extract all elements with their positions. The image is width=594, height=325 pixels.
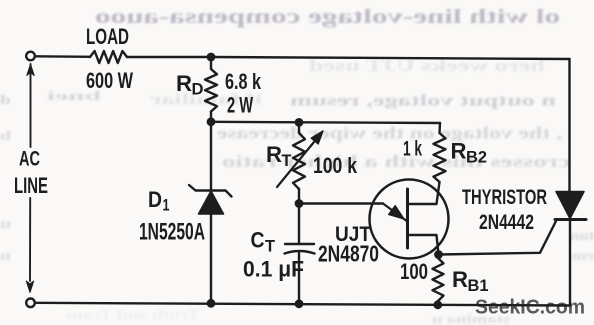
junction node second rail / RD xyxy=(207,117,216,126)
resistor RB2 1k zigzag xyxy=(434,133,446,182)
svg-text:THYRISTOR: THYRISTOR xyxy=(462,186,547,209)
wire D1 bottom stub xyxy=(210,214,212,303)
junction node bottom rail / D1 xyxy=(207,299,216,308)
svg-text:D: D xyxy=(192,80,204,99)
resistor RB1 100 zigzag xyxy=(433,258,444,301)
svg-text:1: 1 xyxy=(163,196,170,215)
svg-text:1 k: 1 k xyxy=(403,138,422,161)
junction node emitter / RT / CT xyxy=(295,199,304,208)
arrow up toward top terminal xyxy=(27,64,34,76)
thyristor cathode bar xyxy=(555,218,586,221)
thyristor Q1 triangle 2N4442 xyxy=(556,192,584,219)
wire thyristor cathode down to bottom rail xyxy=(569,220,571,306)
svg-text:2N4442: 2N4442 xyxy=(479,211,534,234)
wire CT bottom stub xyxy=(298,253,300,304)
wire RB2 corner stub xyxy=(438,123,441,133)
svg-text:Truth and Trans: Truth and Trans xyxy=(64,308,200,323)
wire RB1 top stub xyxy=(437,255,440,259)
zener D1 cathode bar with wings xyxy=(189,185,232,197)
svg-text:tun: tun xyxy=(570,229,594,244)
wire second rail xyxy=(211,122,440,123)
wire top rail left of LOAD xyxy=(35,55,90,58)
wire D1 top stub xyxy=(210,122,212,191)
resistor LOAD 600W zigzag xyxy=(90,51,127,63)
wire right corner down to thyristor anode xyxy=(568,59,570,192)
bottom rail wire xyxy=(35,303,570,306)
wire RB1 bottom stub xyxy=(437,301,440,305)
wire RT bottom stub xyxy=(298,189,300,204)
UJT emitter diagonal with arrow xyxy=(383,204,406,221)
wire CT top stub xyxy=(298,204,300,245)
svg-text:0.1 μF: 0.1 μF xyxy=(243,257,304,282)
capacitor CT bottom plate xyxy=(285,251,315,254)
wire AC line lower segment xyxy=(29,198,31,281)
resistor RD 6.8k 2W zigzag xyxy=(205,69,217,112)
junction node gate / base1 / RB1 xyxy=(434,250,443,259)
wire emitter from RT node into UJT xyxy=(299,202,383,204)
junction node bottom rail / CT xyxy=(295,299,304,308)
svg-text:100: 100 xyxy=(400,259,428,284)
svg-text:100 k: 100 k xyxy=(313,153,358,178)
svg-text:B2: B2 xyxy=(466,148,487,167)
svg-text:n: n xyxy=(0,249,11,264)
zener D1 triangle xyxy=(199,191,224,214)
UJT base1 lead xyxy=(408,235,439,255)
wire top rail node to right corner xyxy=(211,57,570,59)
svg-text:n output voltage, resum: n output voltage, resum xyxy=(289,93,556,110)
svg-text:R: R xyxy=(176,71,192,96)
UJT base2 lead xyxy=(408,182,440,204)
svg-text:ol with line-voltage compensa-: ol with line-voltage compensa-auoo xyxy=(95,7,560,28)
arrow down toward bottom terminal xyxy=(26,281,33,293)
svg-text:R: R xyxy=(451,139,467,164)
svg-text:em: em xyxy=(572,249,594,264)
svg-text:D: D xyxy=(148,187,162,212)
wire RD top stub xyxy=(210,57,212,69)
svg-text:d: d xyxy=(0,93,11,108)
svg-text:LOAD: LOAD xyxy=(86,24,129,49)
UJT base bar xyxy=(406,189,409,248)
wire RT top stub xyxy=(298,122,300,133)
svg-text:2N4870: 2N4870 xyxy=(318,241,379,267)
svg-text:T: T xyxy=(265,237,276,256)
svg-text:1N5250A: 1N5250A xyxy=(139,219,205,246)
svg-text:, the voltage on the wiper dec: , the voltage on the wiper decrease xyxy=(217,124,562,143)
terminal bottom-left xyxy=(26,299,35,308)
UJT U1 circle 2N4870 xyxy=(370,180,449,259)
junction node second rail / RT xyxy=(295,118,304,127)
wire AC line upper segment xyxy=(30,64,32,147)
wire thyristor gate xyxy=(439,221,557,255)
wire RD bottom stub xyxy=(210,112,212,123)
svg-text:R: R xyxy=(266,142,282,167)
svg-text:AC: AC xyxy=(19,148,40,171)
svg-text:B1: B1 xyxy=(468,276,489,295)
svg-text:T: T xyxy=(282,151,293,170)
junction node bottom rail / RB1 xyxy=(433,300,442,309)
wire top rail LOAD to node xyxy=(127,56,211,58)
svg-text:SeekIC.com: SeekIC.com xyxy=(475,297,585,319)
svg-text:LINE: LINE xyxy=(14,173,48,198)
svg-text:u: u xyxy=(0,217,11,232)
capacitor CT top plate xyxy=(285,243,314,245)
svg-text:C: C xyxy=(251,228,265,253)
junction node top rail / RD xyxy=(207,53,216,62)
svg-text:600 W: 600 W xyxy=(86,68,133,93)
svg-text:6.8 k: 6.8 k xyxy=(225,69,262,94)
svg-text:b: b xyxy=(0,129,11,144)
terminal top-left xyxy=(26,52,35,61)
svg-text:R: R xyxy=(452,267,468,292)
svg-text:2 W: 2 W xyxy=(227,93,253,118)
potentiometer RT 100k zigzag xyxy=(293,133,305,189)
arrow of potentiometer RT xyxy=(277,142,314,187)
